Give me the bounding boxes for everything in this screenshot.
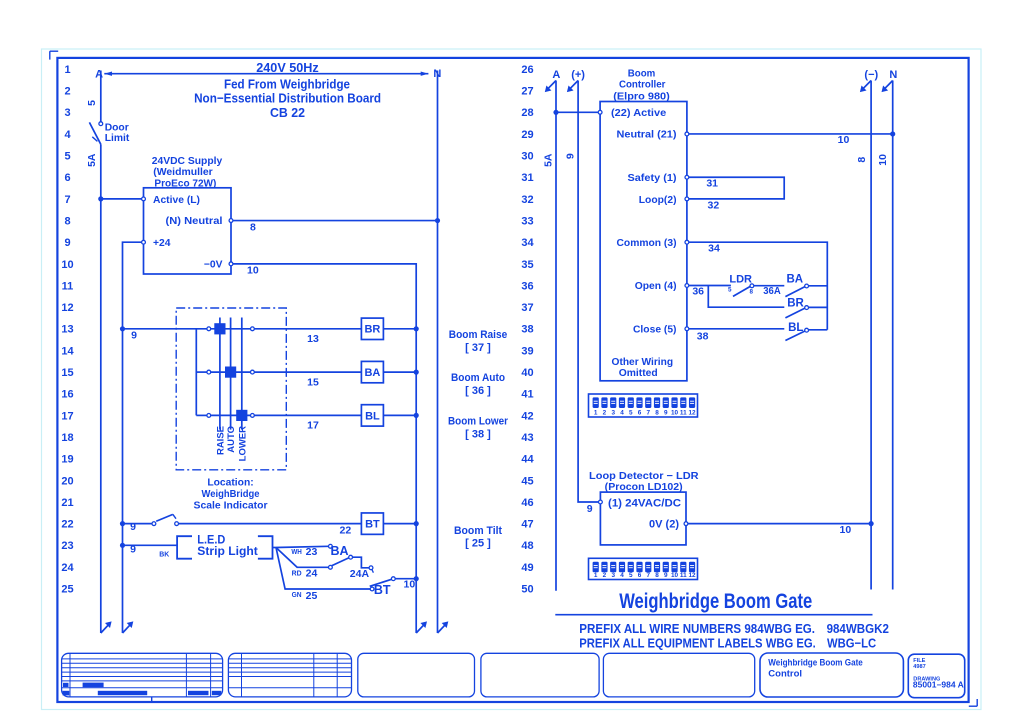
svg-text:+24: +24: [153, 238, 171, 249]
svg-text:22: 22: [340, 525, 352, 537]
label BA contact: [330, 544, 348, 558]
svg-text:34: 34: [708, 243, 720, 255]
label 5A rotated right ladder: [542, 153, 554, 167]
left rung number column 1-25: [61, 64, 74, 596]
svg-text:10: 10: [840, 524, 852, 536]
svg-text:(+): (+): [571, 69, 585, 81]
continuation arrow rail N bottom: [438, 621, 449, 633]
svg-text:Weighbridge Boom Gate: Weighbridge Boom Gate: [768, 657, 863, 668]
label RD wire 24: [292, 567, 318, 579]
contact LDR with pins 5 and 8: [733, 284, 754, 297]
svg-text:48: 48: [521, 540, 533, 552]
svg-text:240V 50Hz: 240V 50Hz: [256, 60, 319, 75]
svg-text:46: 46: [521, 497, 533, 509]
coil BL: [361, 405, 383, 426]
wire 13 selector to coil BR: [254, 328, 361, 330]
selector switch RAISE/AUTO/LOWER poles: [220, 318, 242, 430]
wire number 9 label loop detector: [587, 503, 593, 515]
wire number 38 label: [697, 330, 709, 342]
label Boom Tilt [ 25 ]: [454, 525, 502, 550]
svg-text:11: 11: [62, 280, 74, 292]
svg-text:Control: Control: [768, 668, 802, 679]
continuation arrow wire 9 bus bottom: [123, 621, 134, 633]
label BK black wire: [159, 552, 169, 559]
power supply PSU 24VDC (Weidmuller ProEco 72W): [142, 156, 233, 274]
wire number 9 label rung 22: [130, 521, 136, 533]
label Fed From Weighbridge: [224, 77, 350, 92]
svg-text:5A: 5A: [86, 153, 98, 167]
wire number 15 label: [307, 376, 319, 388]
svg-text:15: 15: [61, 367, 73, 379]
label Boom Auto [ 36 ]: [451, 372, 505, 397]
svg-text:0V (2): 0V (2): [649, 518, 679, 530]
title block drawing title Weighbridge Boom Gate Control: [760, 653, 903, 697]
label BT contact: [374, 583, 391, 597]
svg-text:N: N: [889, 69, 897, 81]
svg-text:85001−984 A: 85001−984 A: [913, 681, 964, 690]
svg-text:24VDC Supply: 24VDC Supply: [152, 156, 223, 167]
svg-text:Boom Tilt: Boom Tilt: [454, 525, 502, 537]
wire coil BR to 0V bus: [383, 328, 416, 330]
labels RAISE AUTO LOWER (rotated): [215, 426, 248, 461]
wire 34 Common 3 to contact bus: [685, 240, 827, 329]
rail N vertical: [437, 71, 439, 634]
svg-text:24: 24: [61, 562, 74, 574]
selector knob RAISE position: [214, 323, 225, 334]
svg-text:WH: WH: [291, 549, 302, 556]
wire number 31 label: [706, 178, 718, 190]
enclosure Location WeighBridge Scale Indicator (dash-dot): [176, 308, 286, 470]
contact BA right ladder: [785, 284, 827, 297]
node (-) label: [864, 69, 878, 81]
svg-text:Omitted: Omitted: [619, 368, 658, 379]
selector right contacts: [251, 327, 255, 417]
svg-text:9: 9: [664, 410, 668, 417]
svg-text:Boom Raise: Boom Raise: [449, 329, 507, 341]
svg-text:20: 20: [61, 475, 73, 487]
svg-text:(Weidmuller: (Weidmuller: [153, 167, 213, 178]
svg-text:7: 7: [64, 194, 70, 206]
coil BT: [361, 513, 383, 534]
svg-text:Loop Detector − LDR: Loop Detector − LDR: [589, 471, 699, 482]
wire coil BL to 0V bus: [383, 414, 416, 416]
junction 0V bus rung 15: [414, 370, 419, 375]
svg-text:Fed From Weighbridge: Fed From Weighbridge: [224, 77, 350, 92]
wire number 34 label: [708, 243, 720, 255]
svg-text:9: 9: [130, 544, 136, 556]
svg-text:9: 9: [664, 572, 668, 579]
rail A (active) upper segment, wire 5: [100, 71, 102, 122]
rail A right ladder: [545, 81, 556, 591]
wire number 36 label: [692, 286, 704, 298]
svg-text:[ 36 ]: [ 36 ]: [465, 385, 491, 397]
label 8 rotated right ladder: [856, 157, 868, 163]
svg-text:1: 1: [594, 410, 598, 417]
wire number 10 label: [247, 265, 259, 277]
svg-text:23: 23: [61, 540, 73, 552]
svg-text:Strip Light: Strip Light: [197, 544, 257, 558]
label BR contact right: [787, 297, 804, 309]
label Non-Essential Distribution Board: [194, 90, 381, 105]
svg-text:10: 10: [61, 259, 73, 271]
wire 9 to LED strip rung 23: [123, 544, 178, 546]
continuation arrow rail A bottom: [101, 621, 112, 633]
DIP switch bank S1 controller settings: [589, 394, 698, 417]
svg-text:[ 25 ]: [ 25 ]: [465, 538, 491, 550]
wire 9 to tilt switch rung 22: [123, 523, 153, 525]
svg-text:9: 9: [130, 521, 136, 533]
svg-text:5: 5: [86, 100, 98, 106]
svg-text:Boom Auto: Boom Auto: [451, 372, 505, 384]
coil BA: [361, 361, 383, 382]
svg-text:13: 13: [307, 333, 319, 345]
svg-text:23: 23: [306, 546, 318, 558]
controller U1 Boom Controller Elpro 980: [600, 68, 687, 380]
svg-text:34: 34: [521, 237, 534, 249]
label CB 22: [270, 105, 305, 120]
rail + wire 9 right ladder: [567, 81, 599, 503]
node (+) label: [571, 69, 585, 81]
svg-text:4: 4: [620, 572, 624, 579]
wire fan-out from LED strip (WH RD GN): [273, 546, 371, 589]
selector knob AUTO position: [225, 367, 236, 378]
svg-text:26: 26: [521, 64, 533, 76]
svg-text:36A: 36A: [763, 285, 781, 297]
wire coil BT to 0V bus: [383, 523, 416, 525]
svg-text:44: 44: [521, 454, 534, 466]
label Door Limit: [105, 123, 130, 144]
svg-text:Limit: Limit: [105, 133, 130, 144]
svg-text:25: 25: [306, 590, 318, 602]
label 9 rotated right ladder: [564, 153, 576, 159]
wire 38 Close 5 to BL contact: [685, 327, 784, 331]
svg-text:RAISE: RAISE: [215, 426, 226, 455]
title block revisions table: [228, 653, 351, 697]
svg-text:36: 36: [521, 280, 533, 292]
svg-text:GN: GN: [292, 592, 302, 599]
label Boom Raise [ 37 ]: [449, 329, 507, 354]
wire number 22 label: [340, 525, 352, 537]
selector left contacts: [207, 327, 211, 417]
svg-text:5A: 5A: [542, 153, 554, 167]
wire 15 selector to coil BA: [254, 371, 361, 373]
title block amendments table: [62, 653, 223, 697]
wire 22 to coil BT: [179, 523, 362, 525]
svg-text:25: 25: [61, 584, 73, 596]
pin 5 label LDR: [728, 287, 732, 294]
svg-text:2: 2: [603, 410, 607, 417]
svg-text:−0V: −0V: [204, 260, 223, 271]
label 10 rotated right ladder: [877, 154, 889, 166]
switch boom tilt limit rung 22: [152, 514, 179, 525]
svg-text:1: 1: [64, 64, 70, 76]
label 5A (rotated): [86, 153, 98, 167]
svg-text:41: 41: [521, 389, 533, 401]
svg-text:21: 21: [61, 497, 73, 509]
svg-text:7: 7: [646, 572, 650, 579]
wire number 32 label: [708, 200, 720, 212]
wire number 9 label rung 23: [130, 544, 136, 556]
svg-text:32: 32: [521, 194, 533, 206]
contact BT (wire 25 to wire 10): [370, 577, 417, 591]
svg-text:AUTO: AUTO: [226, 426, 237, 453]
svg-text:9: 9: [64, 237, 70, 249]
svg-text:8: 8: [750, 289, 754, 296]
svg-text:2: 2: [64, 86, 70, 98]
node A label (240V active): [95, 68, 103, 80]
svg-text:38: 38: [697, 330, 709, 342]
svg-text:BK: BK: [159, 552, 169, 559]
svg-text:14: 14: [61, 345, 74, 357]
label Location: WeighBridge Scale Indicator: [194, 477, 268, 511]
rail A (active) lower segment, wire 5A fuse rating: [100, 144, 102, 633]
title block file and drawing number: [908, 654, 964, 698]
svg-text:10: 10: [671, 572, 679, 579]
selector knob LOWER position: [236, 410, 247, 421]
svg-text:Boom Lower: Boom Lower: [448, 415, 509, 427]
svg-text:22: 22: [61, 519, 73, 531]
wire 36A LDR to BA contact: [754, 285, 785, 287]
svg-text:3: 3: [611, 410, 615, 417]
svg-text:39: 39: [521, 345, 533, 357]
selector through wires: [211, 329, 251, 416]
node N label (240V neutral): [433, 68, 441, 80]
svg-text:(22) Active: (22) Active: [611, 108, 666, 119]
svg-text:3: 3: [611, 572, 615, 579]
coil BR: [361, 318, 383, 339]
wire number 13 label: [307, 333, 319, 345]
svg-text:10: 10: [671, 410, 679, 417]
svg-text:6: 6: [638, 572, 642, 579]
wire 17 selector to coil BL: [254, 414, 361, 416]
svg-text:17: 17: [61, 410, 73, 422]
wire 36 Open 4 to LDR contact: [685, 284, 731, 288]
svg-text:8: 8: [655, 410, 659, 417]
junction 0V bus rung 22: [414, 521, 419, 526]
svg-text:BR: BR: [787, 297, 804, 309]
svg-text:BA: BA: [330, 544, 348, 558]
label BA contact right: [786, 273, 803, 285]
right rung number column 26-50: [521, 64, 534, 596]
wire 10 loop detector 0V to rail - rung 47: [688, 523, 871, 525]
svg-text:[ 37 ]: [ 37 ]: [465, 342, 491, 354]
wire 8 PSU Neutral to rail N rung 8: [233, 220, 438, 222]
wire coil BA to 0V bus: [383, 371, 416, 373]
svg-text:A: A: [95, 68, 103, 80]
svg-text:BL: BL: [788, 322, 803, 334]
svg-text:19: 19: [61, 454, 73, 466]
svg-text:Location:: Location:: [207, 477, 253, 488]
svg-text:BA: BA: [364, 367, 380, 379]
svg-text:5: 5: [728, 287, 732, 294]
svg-text:Controller: Controller: [619, 80, 666, 91]
svg-text:6: 6: [64, 172, 70, 184]
svg-text:24A: 24A: [350, 568, 370, 580]
wire 10 0V bus from PSU -0V terminal down right side: [233, 264, 416, 633]
svg-text:9: 9: [131, 330, 137, 342]
junction rail A rung 28: [553, 110, 558, 115]
svg-text:8: 8: [856, 157, 868, 163]
svg-text:10: 10: [404, 578, 416, 590]
svg-text:Common (3): Common (3): [617, 238, 677, 249]
svg-text:8: 8: [250, 221, 256, 233]
svg-text:Loop(2): Loop(2): [639, 195, 677, 206]
svg-text:16: 16: [61, 389, 73, 401]
continuation arrow wire 10 bus bottom: [416, 621, 427, 633]
component L.E.D Strip Light with bracket: [177, 532, 272, 558]
wire number 5 label (rotated): [86, 100, 98, 106]
svg-text:LDR: LDR: [729, 273, 752, 285]
svg-text:Close (5): Close (5): [633, 325, 677, 336]
svg-text:(−): (−): [864, 69, 878, 81]
svg-text:7: 7: [646, 410, 650, 417]
svg-text:43: 43: [521, 432, 533, 444]
wire 10 controller Neutral 21 to rail N rung 29: [685, 132, 893, 136]
contact BA changeover (wire 23/24 to 24A): [329, 544, 374, 572]
svg-text:11: 11: [680, 410, 687, 417]
svg-text:12: 12: [689, 572, 697, 579]
svg-text:18: 18: [61, 432, 73, 444]
svg-text:Neutral (21): Neutral (21): [617, 129, 677, 140]
svg-text:4: 4: [64, 129, 71, 141]
svg-text:30: 30: [521, 151, 533, 163]
svg-text:37: 37: [521, 302, 533, 314]
svg-text:5: 5: [629, 572, 633, 579]
pin 8 label LDR: [750, 289, 754, 296]
junction wire 9 bus rung 22: [120, 521, 125, 526]
svg-text:PREFIX ALL EQUIPMENT LABELS WB: PREFIX ALL EQUIPMENT LABELS WBG EG. WBG−…: [579, 635, 876, 650]
svg-text:8: 8: [655, 572, 659, 579]
svg-text:BR: BR: [364, 324, 380, 336]
svg-text:RD: RD: [292, 570, 302, 577]
junction 0V bus at BT contact: [414, 576, 419, 581]
rail - wire 8 right ladder: [860, 81, 871, 590]
svg-text:Other Wiring: Other Wiring: [612, 357, 674, 368]
svg-text:4987: 4987: [913, 664, 925, 670]
svg-text:Door: Door: [105, 123, 129, 134]
junction on rail N at rung 8: [435, 218, 440, 223]
svg-text:12: 12: [61, 302, 73, 314]
svg-text:10: 10: [247, 265, 259, 277]
svg-text:9: 9: [564, 153, 576, 159]
svg-text:17: 17: [307, 420, 319, 432]
svg-text:2: 2: [603, 572, 607, 579]
svg-text:6: 6: [638, 410, 642, 417]
svg-text:CB 22: CB 22: [270, 105, 305, 120]
svg-text:33: 33: [521, 215, 533, 227]
svg-text:(N) Neutral: (N) Neutral: [166, 216, 223, 227]
label BL contact right: [788, 322, 803, 334]
svg-text:Active (L): Active (L): [153, 195, 200, 206]
junction 0V bus rung 13: [414, 326, 419, 331]
wire number 10 label rung 29: [838, 134, 850, 146]
svg-text:47: 47: [521, 519, 533, 531]
svg-text:40: 40: [521, 367, 533, 379]
rail N wire 10 right ladder: [882, 81, 893, 590]
wire 240V supply line A to N with arrowheads: [104, 72, 428, 76]
note PREFIX ALL WIRE NUMBERS: [579, 621, 889, 636]
svg-text:BA: BA: [786, 273, 803, 285]
svg-text:PREFIX ALL WIRE NUMBERS 984WBG: PREFIX ALL WIRE NUMBERS 984WBG EG. 984WB…: [579, 621, 889, 636]
svg-text:FILE: FILE: [913, 658, 925, 664]
junction wire 9 bus rung 23: [120, 543, 125, 548]
svg-text:Open (4): Open (4): [635, 281, 677, 292]
svg-text:12: 12: [689, 410, 697, 417]
svg-text:15: 15: [307, 376, 319, 388]
svg-text:8: 8: [64, 215, 70, 227]
switch Door Limit: [89, 122, 102, 145]
svg-text:3: 3: [64, 107, 70, 119]
wire rail A to PSU Active L rung 7: [101, 198, 142, 200]
contact BR right ladder: [785, 306, 827, 318]
svg-text:WeighBridge: WeighBridge: [202, 489, 260, 500]
svg-text:4: 4: [620, 410, 624, 417]
wire number 10 label at BT contact: [404, 578, 416, 590]
svg-text:42: 42: [521, 410, 533, 422]
selector common vertical link: [196, 329, 207, 416]
detector LDR Loop Detector Procon LD102: [589, 471, 699, 545]
svg-text:9: 9: [587, 503, 593, 515]
svg-text:49: 49: [521, 562, 533, 574]
label 24A: [350, 568, 370, 580]
svg-text:31: 31: [706, 178, 718, 190]
note PREFIX ALL EQUIPMENT LABELS: [579, 635, 876, 650]
junction rail N rung 29: [890, 131, 895, 136]
junction wire 9 bus at rung 13: [120, 326, 125, 331]
junction rail - rung 47: [869, 521, 874, 526]
label 240V 50Hz: [256, 60, 319, 75]
wire rail A to controller pin 22 Active: [556, 110, 602, 114]
svg-text:Non−Essential Distribution Boa: Non−Essential Distribution Board: [194, 90, 381, 105]
label WH wire 23: [291, 546, 317, 558]
node A label right ladder: [552, 69, 560, 81]
junction 0V bus rung 17: [414, 413, 419, 418]
svg-text:29: 29: [521, 129, 533, 141]
svg-text:10: 10: [877, 154, 889, 166]
svg-text:Boom: Boom: [628, 68, 656, 79]
svg-text:24: 24: [306, 567, 318, 579]
title Weighbridge Boom Gate: [555, 590, 872, 615]
branch wire 36 to BR contact: [708, 286, 784, 308]
svg-text:35: 35: [521, 259, 533, 271]
svg-text:45: 45: [521, 475, 533, 487]
DIP switch bank S2 loop detector settings: [589, 558, 698, 579]
svg-text:38: 38: [521, 324, 533, 336]
svg-text:LOWER: LOWER: [237, 426, 248, 461]
svg-text:31: 31: [521, 172, 533, 184]
svg-text:BT: BT: [374, 583, 391, 597]
svg-text:[ 38 ]: [ 38 ]: [465, 428, 491, 440]
svg-text:5: 5: [64, 151, 70, 163]
svg-text:28: 28: [521, 107, 533, 119]
contact BL right ladder: [785, 328, 827, 340]
svg-text:13: 13: [61, 324, 73, 336]
wire 9 bus from PSU +24 terminal down to rung 23: [123, 242, 142, 633]
svg-text:10: 10: [838, 134, 850, 146]
svg-text:Safety (1): Safety (1): [628, 173, 677, 184]
svg-text:36: 36: [692, 286, 704, 298]
wire number 10 label rung 47: [840, 524, 852, 536]
wire number 17 label: [307, 420, 319, 432]
label LDR: [729, 273, 752, 285]
wire 9 to selector common rung 13: [123, 328, 207, 330]
svg-text:27: 27: [521, 86, 533, 98]
wire number 8 label: [250, 221, 256, 233]
svg-text:32: 32: [708, 200, 720, 212]
svg-text:Scale Indicator: Scale Indicator: [194, 501, 268, 512]
svg-text:11: 11: [680, 572, 687, 579]
svg-text:Weighbridge Boom Gate: Weighbridge Boom Gate: [619, 590, 812, 613]
